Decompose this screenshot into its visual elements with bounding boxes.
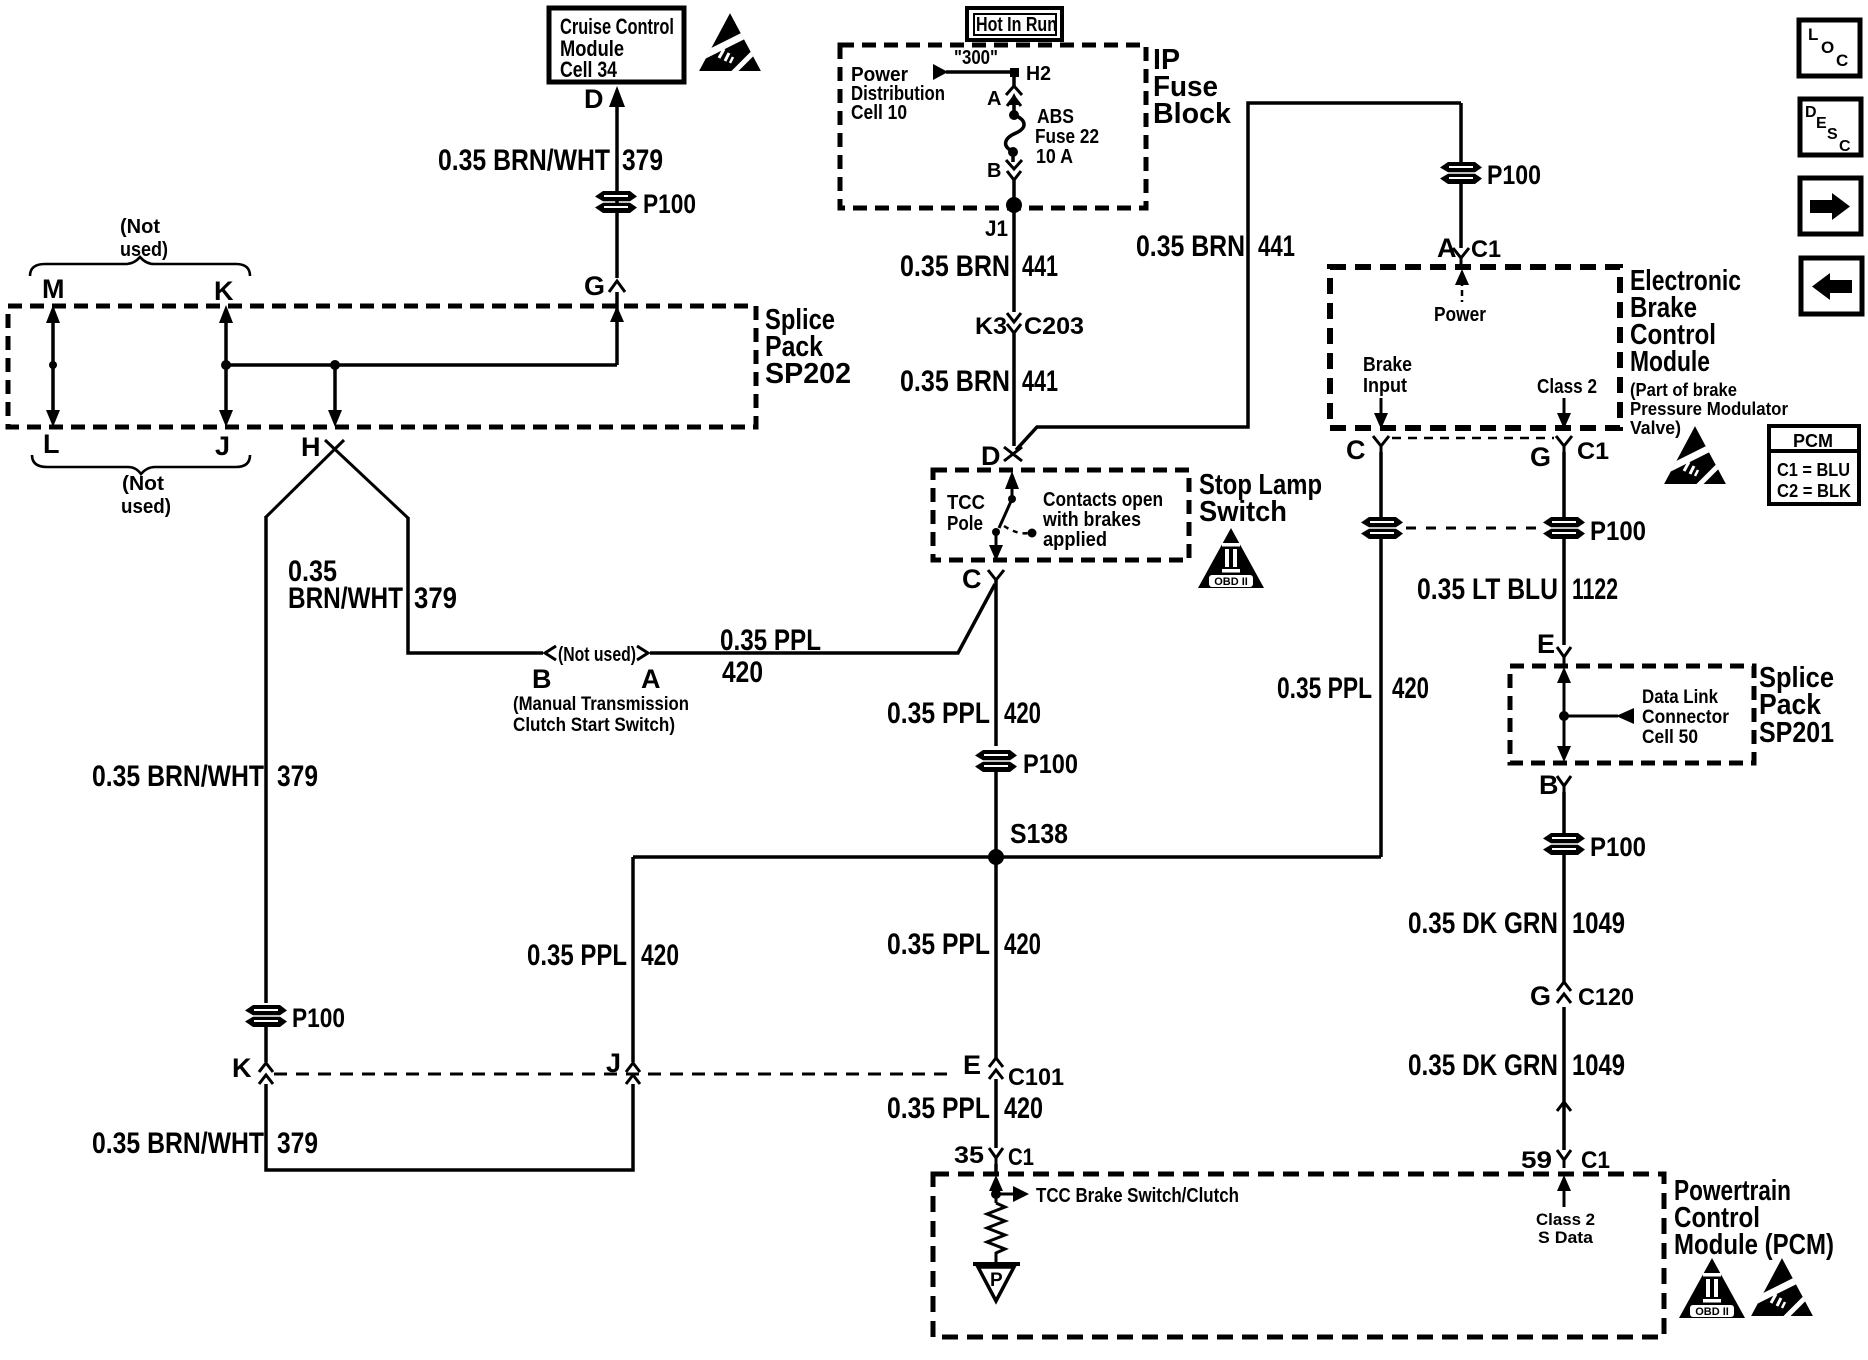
svg-text:420: 420 bbox=[722, 656, 763, 689]
svg-text:0.35 PPL: 0.35 PPL bbox=[887, 1092, 990, 1125]
svg-text:0.35 BRN: 0.35 BRN bbox=[900, 365, 1010, 398]
label (Not used) top bbox=[120, 216, 168, 261]
connector C1 dashed tie line bbox=[1392, 437, 1554, 440]
junction J1 dot bbox=[1006, 197, 1022, 213]
svg-text:K: K bbox=[214, 276, 234, 306]
svg-text:P: P bbox=[990, 1270, 1003, 1291]
svg-text:E: E bbox=[1537, 629, 1555, 659]
svg-text:379: 379 bbox=[414, 582, 457, 615]
junction dot K / splice bus bbox=[221, 360, 231, 370]
svg-text:C1: C1 bbox=[1577, 438, 1609, 465]
wire K with arrows both ends bbox=[219, 305, 233, 427]
svg-text:C1: C1 bbox=[1581, 1147, 1610, 1174]
chevron C (stop lamp switch) bbox=[988, 570, 1004, 580]
label (Manual Transmission Clutch Start Switch) bbox=[513, 694, 689, 736]
chevron G (splice pack SP202) bbox=[609, 281, 625, 292]
label 0.35 PPL 420 (E to PCM) bbox=[887, 1092, 1043, 1125]
svg-text:K3: K3 bbox=[975, 313, 1007, 340]
ESD symbol (PCM) bbox=[1751, 1258, 1813, 1321]
label 0.35 PPL 420 (EBCM C wire) bbox=[1277, 672, 1429, 705]
connector K3 C203 chevron (double down) bbox=[1007, 313, 1021, 333]
svg-text:0.35 DK GRN: 0.35 DK GRN bbox=[1408, 1049, 1558, 1082]
svg-text:O: O bbox=[1821, 38, 1834, 57]
Cruise Control Module box bbox=[549, 8, 684, 82]
label 0.35 BRN 441 (right vertical) bbox=[1136, 230, 1295, 263]
junction dot on wire M bbox=[49, 361, 57, 369]
svg-text:H: H bbox=[301, 432, 321, 462]
label 0.35 PPL 420 (S138 to E) bbox=[887, 928, 1041, 961]
fuse ABS Fuse 22 10 A element bbox=[1006, 110, 1024, 157]
svg-text:441: 441 bbox=[1022, 250, 1058, 283]
svg-text:441: 441 bbox=[1258, 230, 1295, 263]
svg-text:420: 420 bbox=[641, 939, 679, 972]
svg-text:P100: P100 bbox=[1023, 749, 1078, 779]
svg-text:1049: 1049 bbox=[1572, 1049, 1625, 1082]
wire fuse B to J1 bbox=[1012, 180, 1016, 250]
svg-text:SP202: SP202 bbox=[765, 358, 851, 390]
svg-text:0.35 BRN/WHT: 0.35 BRN/WHT bbox=[438, 144, 610, 177]
label 0.35 BRN/WHT 379 (top) bbox=[438, 144, 663, 177]
svg-text:35: 35 bbox=[954, 1142, 984, 1169]
svg-text:TCC Brake Switch/Clutch: TCC Brake Switch/Clutch bbox=[1036, 1185, 1239, 1207]
node H crossed wires to left and right branches bbox=[266, 440, 408, 518]
switch blade bbox=[999, 499, 1012, 528]
svg-text:C1: C1 bbox=[1471, 236, 1501, 263]
arrow to TCC Brake Switch/Clutch bbox=[996, 1186, 1029, 1202]
label Contacts open with brakes applied bbox=[1042, 489, 1163, 551]
svg-text:379: 379 bbox=[277, 1127, 318, 1160]
Stop Lamp Switch dashed box bbox=[933, 470, 1189, 560]
svg-text:C: C bbox=[962, 564, 982, 594]
switch output arrow to C bbox=[989, 535, 1003, 561]
svg-text:0.35 PPL: 0.35 PPL bbox=[887, 697, 990, 730]
wire inside SP201 with end arrows bbox=[1557, 667, 1571, 762]
connector P100 (B of SP201) bbox=[1543, 833, 1585, 855]
svg-text:(Not: (Not bbox=[122, 473, 164, 495]
chevron J C101 (double) bbox=[626, 1063, 640, 1084]
svg-text:P100: P100 bbox=[292, 1003, 345, 1033]
OBD II symbol (PCM) bbox=[1679, 1258, 1745, 1318]
wire 0.35 BRN 441 C203 down to D bbox=[1012, 333, 1016, 446]
label TCC Pole bbox=[947, 492, 985, 535]
wire P100 to S138 bbox=[994, 772, 998, 857]
svg-text:B: B bbox=[1539, 770, 1559, 800]
chevron A fuse (double up) bbox=[1006, 86, 1022, 112]
svg-text:C1 = BLU: C1 = BLU bbox=[1777, 460, 1850, 480]
arrow into PCM at pin 59 bbox=[1557, 1175, 1571, 1207]
svg-text:D: D bbox=[1805, 104, 1817, 121]
svg-text:420: 420 bbox=[1392, 672, 1429, 705]
label 0.35 DK GRN 1049 (lower) bbox=[1408, 1049, 1625, 1082]
svg-text:Pole: Pole bbox=[947, 513, 983, 535]
chevron D (stop lamp switch) bbox=[1004, 447, 1022, 461]
connector P100 (center wire) bbox=[975, 750, 1017, 772]
svg-text:C203: C203 bbox=[1024, 313, 1084, 340]
svg-text:L: L bbox=[1808, 25, 1818, 44]
chevron 35 C1 bbox=[989, 1148, 1003, 1166]
label (Not used) bottom bbox=[121, 473, 171, 518]
svg-text:with brakes: with brakes bbox=[1042, 509, 1141, 531]
node H2 dot bbox=[1010, 68, 1019, 77]
svg-text:SP201: SP201 bbox=[1759, 717, 1834, 749]
wire K to J below C101 (U shape) bbox=[266, 1084, 633, 1170]
Hot In Run box bbox=[967, 8, 1062, 40]
svg-text:K: K bbox=[232, 1053, 252, 1083]
svg-text:A: A bbox=[641, 664, 661, 694]
svg-text:S138: S138 bbox=[1010, 818, 1068, 849]
wire from G chevron into splice pack bbox=[615, 292, 619, 365]
svg-text:Cell 50: Cell 50 bbox=[1642, 727, 1698, 748]
chevron G C120 (double up) bbox=[1557, 982, 1571, 1003]
svg-text:Cell 34: Cell 34 bbox=[560, 57, 618, 82]
label 0.35 PPL 420 (A to C run) bbox=[720, 624, 821, 689]
svg-text:(Manual Transmission: (Manual Transmission bbox=[513, 694, 689, 715]
svg-text:J: J bbox=[215, 431, 230, 461]
svg-text:Block: Block bbox=[1153, 98, 1232, 130]
svg-text:1122: 1122 bbox=[1572, 573, 1618, 606]
svg-text:ABS: ABS bbox=[1037, 106, 1074, 128]
svg-text:0.35 LT BLU: 0.35 LT BLU bbox=[1417, 573, 1558, 606]
svg-text:D: D bbox=[981, 441, 1001, 471]
svg-text:420: 420 bbox=[1004, 928, 1041, 961]
label (Part of brake Pressure Modulator Valve) bbox=[1630, 380, 1788, 438]
Electronic Brake Control Module dashed box bbox=[1330, 267, 1620, 428]
chevron B fuse (double down) bbox=[1006, 155, 1022, 180]
svg-text:P100: P100 bbox=[1487, 160, 1541, 190]
svg-text:10 A: 10 A bbox=[1036, 146, 1073, 168]
connector P100 dashed tie line bbox=[1406, 527, 1540, 530]
label Powertrain Control Module (PCM) bbox=[1674, 1175, 1834, 1261]
svg-text:379: 379 bbox=[622, 144, 663, 177]
label Brake Input bbox=[1363, 354, 1412, 397]
svg-text:Hot In Run: Hot In Run bbox=[976, 14, 1057, 36]
arrow into PCM at pin 35 bbox=[989, 1175, 1003, 1203]
label K3 C203 bbox=[975, 313, 1084, 340]
chevron mid-wire (single) bbox=[1557, 1102, 1571, 1111]
LOC reference box bbox=[1799, 20, 1860, 76]
svg-text:379: 379 bbox=[277, 760, 318, 793]
svg-text:(Part of brake: (Part of brake bbox=[1630, 380, 1737, 400]
svg-text:0.35 BRN/WHT: 0.35 BRN/WHT bbox=[92, 1127, 264, 1160]
lower contact dot bbox=[992, 528, 1000, 536]
arrow Class 2 to pin G bbox=[1557, 398, 1571, 429]
svg-text:0.35 PPL: 0.35 PPL bbox=[887, 928, 990, 961]
svg-text:C101: C101 bbox=[1008, 1064, 1064, 1091]
wire H2 down to fuse bbox=[1012, 72, 1016, 88]
chevron A (not used splice) bbox=[637, 646, 648, 660]
junction dot SP201 bbox=[1559, 711, 1569, 721]
svg-text:P100: P100 bbox=[1590, 516, 1646, 546]
chevron G C1 (EBCM) bbox=[1556, 436, 1572, 455]
Powertrain Control Module dashed box bbox=[933, 1174, 1664, 1337]
wire into PCM bbox=[994, 1164, 998, 1176]
label 0.35 PPL 420 (C to S138) bbox=[887, 697, 1041, 730]
arrow Power inside EBCM bbox=[1455, 269, 1469, 302]
svg-text:G: G bbox=[1530, 981, 1551, 1011]
label Class 2 S Data bbox=[1536, 1210, 1595, 1247]
svg-text:Input: Input bbox=[1363, 375, 1407, 397]
splice S138 bus wire bbox=[633, 855, 1381, 859]
arrow Brake Input to pin C bbox=[1374, 398, 1388, 429]
svg-text:Valve): Valve) bbox=[1630, 418, 1681, 438]
label Power Distribution Cell 10 bbox=[851, 64, 945, 124]
wire "300" feed to H2 bbox=[946, 70, 1014, 74]
OBD II symbol (stop lamp switch) bbox=[1198, 528, 1264, 588]
svg-text:"300": "300" bbox=[954, 47, 998, 69]
arrow into splice pack at G bbox=[610, 306, 624, 322]
ESD symbol (EBCM) bbox=[1664, 426, 1726, 489]
wire P100 down to bus corner bbox=[1379, 539, 1383, 857]
svg-text:BRN/WHT: BRN/WHT bbox=[288, 582, 403, 615]
connector P100 (EBCM C wire) bbox=[1361, 517, 1403, 539]
svg-text:Clutch Start Switch): Clutch Start Switch) bbox=[513, 715, 675, 736]
splice S138 junction dot bbox=[988, 849, 1004, 865]
label 0.35 BRN 441 (lower) bbox=[900, 365, 1058, 398]
connector P100 (cruise wire) bbox=[595, 191, 637, 213]
svg-text:Class 2: Class 2 bbox=[1536, 1210, 1595, 1229]
label 0.35 LT BLU 1122 bbox=[1417, 573, 1618, 606]
svg-text:B: B bbox=[532, 664, 552, 694]
svg-text:Module (PCM): Module (PCM) bbox=[1674, 1229, 1834, 1261]
svg-text:(Not used): (Not used) bbox=[558, 644, 636, 666]
svg-text:C120: C120 bbox=[1578, 984, 1634, 1011]
chevron E SP201 bbox=[1557, 647, 1571, 666]
chevron 59 C1 bbox=[1557, 1150, 1571, 1168]
wire E to 35 C1 bbox=[994, 1079, 998, 1148]
svg-text:0.35 BRN/WHT: 0.35 BRN/WHT bbox=[92, 760, 264, 793]
chevron B SP201 bbox=[1557, 776, 1571, 794]
label Data Link Connector Cell 50 bbox=[1642, 687, 1730, 748]
wire feed from EBCM power to D (corner run) bbox=[1016, 103, 1461, 450]
svg-text:(Not: (Not bbox=[120, 216, 160, 238]
svg-text:J1: J1 bbox=[985, 216, 1008, 241]
stop lamp switch TCC pole contact (upper) bbox=[1005, 471, 1019, 503]
wire M (not used) with arrows both ends bbox=[46, 305, 60, 427]
svg-text:Class 2: Class 2 bbox=[1537, 376, 1597, 398]
wire splice bus down to H with arrow bbox=[328, 365, 342, 427]
wire 0.35 LT BLU 1122 to E SP201 bbox=[1562, 539, 1566, 645]
svg-text:H2: H2 bbox=[1026, 63, 1051, 85]
wire EBCM power feed vertical bbox=[1459, 103, 1463, 162]
svg-text:420: 420 bbox=[1004, 697, 1041, 730]
svg-text:S: S bbox=[1827, 126, 1838, 143]
label Splice Pack SP202 bbox=[765, 304, 851, 390]
svg-text:0.35 PPL: 0.35 PPL bbox=[720, 624, 821, 657]
svg-text:D: D bbox=[584, 84, 604, 114]
svg-text:0.35 PPL: 0.35 PPL bbox=[527, 939, 627, 972]
back arrow reference box bbox=[1801, 258, 1862, 314]
svg-text:L: L bbox=[43, 429, 60, 459]
chevron A C1 (EBCM) bbox=[1453, 248, 1469, 267]
svg-text:Fuse 22: Fuse 22 bbox=[1035, 126, 1099, 148]
label Stop Lamp Switch bbox=[1199, 469, 1322, 528]
resistor (PCM pull-up) bbox=[987, 1203, 1005, 1263]
svg-text:Power: Power bbox=[1434, 304, 1486, 326]
label 0.35 BRN 441 (upper) bbox=[900, 250, 1058, 283]
wire right branch of H down to (Not used) run bbox=[408, 517, 543, 653]
splice pack SP202 dashed box bbox=[8, 306, 756, 427]
dashed travel arc with dot (contacts open with brakes applied) bbox=[1004, 526, 1037, 538]
splice bus wire K to G bbox=[226, 363, 617, 367]
forward arrow reference box bbox=[1800, 178, 1861, 234]
label IP Fuse Block bbox=[1153, 44, 1232, 130]
wire P100 to K chevron bbox=[264, 1027, 268, 1062]
svg-text:PCM: PCM bbox=[1793, 431, 1833, 451]
label 0.35 DK GRN 1049 (upper) bbox=[1408, 907, 1625, 940]
svg-text:J: J bbox=[606, 1048, 621, 1078]
svg-text:P100: P100 bbox=[643, 189, 696, 219]
junction dot splice bus to H bbox=[330, 360, 340, 370]
svg-text:E: E bbox=[1816, 115, 1827, 132]
svg-text:S Data: S Data bbox=[1538, 1228, 1594, 1247]
label 0.35 BRN/WHT 379 (left mid) bbox=[92, 760, 318, 793]
Splice Pack SP201 dashed box bbox=[1510, 666, 1754, 763]
brace over M..K (not used) bbox=[30, 257, 250, 276]
wire A to stop lamp switch pin C, 0.35 PPL 420 bbox=[650, 584, 995, 653]
chevron E C101 (double up) bbox=[989, 1058, 1003, 1079]
svg-text:Cell 10: Cell 10 bbox=[851, 102, 907, 124]
connector P100 (left branch) bbox=[245, 1005, 287, 1027]
svg-text:420: 420 bbox=[1004, 1092, 1043, 1125]
label 0.35 BRN/WHT 379 (bottom left) bbox=[92, 1127, 318, 1160]
chevron K C101 (double) bbox=[259, 1063, 273, 1084]
svg-text:C: C bbox=[1346, 435, 1366, 465]
wire G C120 to 59 C1 bbox=[1562, 1007, 1566, 1150]
label 0.35 BRN/WHT 379 (two-line at H right branch) bbox=[288, 555, 457, 615]
chevron B (not used splice) bbox=[545, 646, 556, 660]
svg-text:Connector: Connector bbox=[1642, 707, 1730, 728]
svg-text:441: 441 bbox=[1022, 365, 1058, 398]
svg-text:C: C bbox=[1839, 138, 1851, 155]
wire 0.35 BRN 441 J1 down to C203 bbox=[1012, 250, 1016, 312]
chevron C C1 (EBCM) bbox=[1373, 436, 1389, 455]
wire EBCM G down bbox=[1562, 452, 1566, 519]
svg-text:Pressure Modulator: Pressure Modulator bbox=[1630, 399, 1788, 419]
svg-text:A: A bbox=[987, 88, 1001, 110]
svg-text:Data Link: Data Link bbox=[1642, 687, 1718, 708]
svg-text:G: G bbox=[1530, 442, 1551, 472]
svg-text:1049: 1049 bbox=[1572, 907, 1625, 940]
label ABS Fuse 22 10 A bbox=[1035, 106, 1099, 168]
wire C down 0.35 PPL 420 bbox=[994, 580, 998, 746]
wire left branch BRN/WHT 379 vertical (H to K of C101) bbox=[264, 516, 268, 1003]
svg-text:0.35 DK GRN: 0.35 DK GRN bbox=[1408, 907, 1558, 940]
arrow to Power Distribution Cell 10 bbox=[933, 64, 948, 80]
svg-text:used): used) bbox=[120, 239, 168, 261]
svg-text:0.35 BRN: 0.35 BRN bbox=[1136, 230, 1245, 263]
svg-text:B: B bbox=[987, 160, 1001, 182]
svg-text:used): used) bbox=[121, 496, 171, 518]
wire S138 left branch down to J bbox=[631, 857, 635, 1062]
wire P100 to G C120, 0.35 DK GRN 1049 bbox=[1562, 855, 1566, 982]
svg-text:applied: applied bbox=[1043, 529, 1107, 551]
svg-text:0.35 PPL: 0.35 PPL bbox=[1277, 672, 1372, 705]
wire S138 down to E C101 bbox=[994, 857, 998, 1060]
svg-text:C1: C1 bbox=[1008, 1144, 1034, 1171]
svg-text:Switch: Switch bbox=[1199, 496, 1287, 528]
connector P100 (EBCM power) bbox=[1440, 162, 1482, 184]
connector C101 dashed line bbox=[274, 1073, 952, 1076]
label 0.35 PPL 420 (left branch) bbox=[527, 939, 679, 972]
wire 0.35 BRN/WHT 379 to cruise module, with arrow into pin D bbox=[609, 86, 625, 278]
ESD warning symbol (cruise module) bbox=[699, 13, 761, 76]
svg-text:Module: Module bbox=[1630, 346, 1710, 378]
svg-text:P100: P100 bbox=[1590, 832, 1646, 862]
DESC reference box bbox=[1800, 99, 1861, 155]
connector P100 (EBCM G wire) bbox=[1543, 517, 1585, 539]
svg-text:M: M bbox=[42, 274, 65, 304]
svg-text:TCC: TCC bbox=[947, 492, 985, 514]
ground P symbol bbox=[973, 1264, 1020, 1301]
brace under L..J (not used) bbox=[32, 455, 250, 474]
PCM connector legend box bbox=[1769, 426, 1859, 504]
wire B to P100 bbox=[1562, 792, 1566, 833]
svg-text:C: C bbox=[1836, 51, 1848, 70]
svg-text:59: 59 bbox=[1521, 1147, 1552, 1174]
svg-text:0.35 BRN: 0.35 BRN bbox=[900, 250, 1010, 283]
wire EBCM C down to S138 bus bbox=[1379, 452, 1383, 519]
label Splice Pack SP201 bbox=[1759, 662, 1834, 749]
node TCC brake switch input junction dot bbox=[991, 1189, 1001, 1199]
wire P100 to A C1 bbox=[1459, 184, 1463, 248]
svg-text:C2 = BLK: C2 = BLK bbox=[1777, 481, 1851, 501]
svg-text:Brake: Brake bbox=[1363, 354, 1412, 376]
IP Fuse Block dashed box bbox=[840, 45, 1146, 208]
label Electronic Brake Control Module bbox=[1630, 265, 1741, 378]
svg-text:E: E bbox=[963, 1050, 981, 1080]
stub to Data Link Connector with arrow bbox=[1564, 708, 1634, 724]
svg-text:Contacts open: Contacts open bbox=[1043, 489, 1163, 511]
svg-text:G: G bbox=[584, 271, 605, 301]
